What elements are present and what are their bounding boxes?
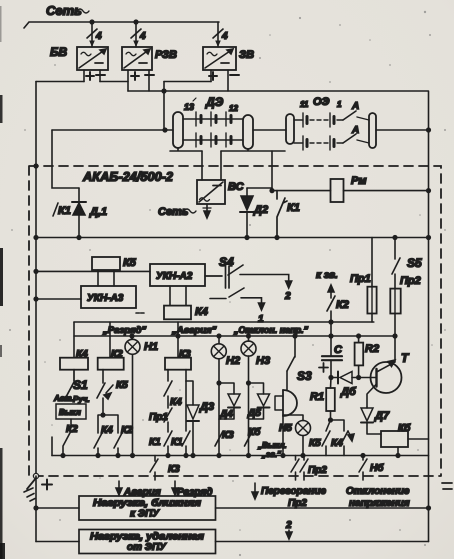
svg-text:„Вынл.: „Вынл. [257,441,287,450]
svg-text:Н1: Н1 [144,341,158,353]
scan edge artifacts [0,6,5,559]
svg-text:К1: К1 [287,202,300,214]
svg-text:12: 12 [229,104,238,113]
label 4 wires slash rectifier3 [213,29,228,42]
label S3 [297,369,312,383]
block УКН-А3 [81,286,136,308]
svg-text:Сеть: Сеть [158,206,188,218]
node bus dots [61,454,400,458]
transistor Т [367,336,402,407]
wire УКН feed upper [36,270,150,272]
node bus x277 [275,236,279,240]
label plus С [319,363,328,372]
contact Нб output [359,456,367,481]
wire bottom negative bus [52,455,429,457]
node УКН feed lower [34,297,38,301]
lamp Н5 [283,415,311,456]
wire К5 split to К4 К2 contacts [98,415,118,433]
label А row2 [351,125,359,136]
wire Рм line left [272,190,331,192]
relay Кб [381,431,429,456]
svg-text:Пр2: Пр2 [308,465,327,476]
switch S4 pole2 [210,288,265,310]
node УКН feed upper [34,270,38,274]
node bus x247 [245,236,249,240]
label Разряд [102,325,146,336]
label Нб output [370,462,384,474]
net label Сеть~ [46,3,89,18]
contact К4 right [331,420,355,456]
label Д5 [247,408,261,419]
wire rectifier2 minus stub [148,70,150,91]
svg-text:БВ: БВ [50,45,67,59]
contact К5 right [322,420,331,456]
svg-text:2: 2 [284,291,291,302]
dashed enclosure АКАБ-24/500-2 [29,166,441,476]
svg-text:К3: К3 [168,464,180,475]
label РЗВ [155,49,177,61]
label ВС [228,181,245,193]
label К1 left [149,437,161,448]
svg-text:„Отклон. напр.”: „Отклон. напр.” [233,325,309,335]
svg-text:К2: К2 [336,299,349,311]
label К4 contact [101,425,113,436]
label Д1 [89,206,107,218]
label Авария [171,325,217,336]
label К4 [195,306,208,318]
wire ОЭ to right bus [376,129,429,131]
svg-text:А: А [351,125,359,136]
label Н1 [144,341,158,353]
label К1 right [171,437,183,448]
arrow Авария [116,481,122,495]
label Н3 [256,355,270,367]
label К4 aux [170,397,182,408]
contact Пр2 output pair [291,456,308,481]
label 2 [284,291,291,302]
contact К4 aux [164,381,172,408]
label Авт Руч [53,394,90,404]
label АКАБ-24/500-2 [82,169,174,184]
bell звонок [275,390,297,456]
svg-text:ДЭ: ДЭ [205,95,224,109]
battery ОЭ left electrode pill [286,114,294,144]
battery ОЭ row2 with switch А [294,134,369,150]
wire branch x52 down [52,130,79,188]
node R2 top [357,334,361,338]
svg-text:„Разряд”: „Разряд” [102,325,146,336]
label 11 [300,100,309,109]
switch S4 pole1 [205,265,292,288]
contact К5 with arrow [97,370,113,415]
battery ОЭ right electrode pill [369,113,376,148]
node lamp Н1 top [130,334,134,338]
node battery feeder [163,128,167,132]
wire main dc bus [36,237,429,239]
battery ДЭ row2 cells [183,133,243,147]
wire ДЭ to ОЭ link [253,129,286,131]
wire К3 relay legs [168,370,186,381]
svg-text:К5: К5 [309,438,321,449]
label 13 [184,98,196,112]
wire C branch [330,336,332,356]
wire rectifier1 plus stub [83,70,85,82]
switch S5 contact [392,238,400,289]
battery ДЭ left electrode pill [173,112,183,148]
node Рм line [270,189,274,193]
label К1 [53,203,71,217]
node S5 bus [393,236,397,240]
svg-text:К4: К4 [170,397,182,408]
svg-text:Д5: Д5 [247,408,261,419]
wire rect3 plus link [164,81,211,83]
svg-text:S1: S1 [73,378,88,392]
label К2 relay [111,349,123,360]
svg-text:К1: К1 [171,437,183,448]
svg-text:Пр1: Пр1 [350,273,371,285]
label Пр2 [400,275,421,287]
wire Рм line right [344,190,429,192]
svg-text:к зв.: к зв. [316,270,338,281]
wire ВС output arrow [203,204,211,218]
svg-text:К4: К4 [331,438,343,449]
svg-text:Н5: Н5 [279,423,292,434]
wire rectifier1 minus stub [99,70,101,82]
label Перегорание Пр2 [261,486,326,509]
label Д7 [374,410,390,422]
node tap2 [134,20,138,24]
relay К4 signal box [60,358,88,370]
resistor R2 [355,336,364,378]
svg-text:11: 11 [300,100,309,109]
svg-text:Н2: Н2 [226,355,240,367]
switch S1 selector [66,370,74,397]
svg-text:R2: R2 [365,343,379,355]
wire bottom bus left hook [51,437,53,456]
label К5 right [309,438,321,449]
svg-text:Д7: Д7 [374,410,390,422]
svg-text:Д3: Д3 [199,401,214,413]
mark equals bottom right [442,483,452,489]
svg-text:К5: К5 [123,257,137,269]
label S1 [73,378,88,392]
node collector top [393,334,397,338]
wire load1 return [216,507,429,509]
svg-text:1: 1 [337,100,342,109]
wire battery left feeder [52,129,173,131]
rectifier БВ (U1) [77,47,108,70]
label К4 relay [76,349,88,360]
wire drop to rectifier 3 [217,22,219,47]
label ЗВ [239,49,254,61]
block load far Нагрузка удаленная [79,530,216,554]
switch S4 label [219,255,234,269]
label Сеть~ output [158,206,196,218]
wire ВС input taps [202,151,221,180]
wire ДЭ bottom bus segments [170,148,285,151]
block УКН-А2 [150,264,205,286]
block load near Нагрузка ближняя [79,496,216,520]
wire top mains bus [24,22,219,28]
rectifier ЗВ (U3) [203,47,236,70]
wire battery feed drop [163,82,165,131]
battery ДЭ row1 cells [183,112,243,126]
svg-text:Нагрузка, ближняя: Нагрузка, ближняя [93,497,201,509]
wire drop arrowheads [89,41,221,48]
fuse Пр2 [390,289,400,336]
label К5 [123,257,137,269]
svg-text:К2: К2 [111,349,123,360]
label Кб contact [248,426,261,438]
svg-text:4: 4 [95,31,102,42]
label 1 [337,100,342,109]
wire to load2 [36,541,79,543]
label К4 right [331,438,343,449]
label К2 contact2 [121,425,133,436]
wire ОЭ mid tap down [271,151,273,191]
node R1 bottom [329,418,333,422]
wire rectifier2 plus stub [127,70,129,82]
relay Рм [331,179,344,202]
node right bus ОЭ [427,128,431,132]
wire drop to rectifier 2 [135,22,137,47]
svg-text:А: А [351,101,359,112]
label ДЭ [205,95,224,109]
label А row1 [351,101,359,112]
label R2 [365,343,379,355]
rectifier РЗВ (U2) [122,47,152,70]
label К3 relay [179,349,191,360]
contact К2 S1 [63,419,71,456]
svg-text:К2: К2 [66,424,78,435]
wire К3 relay drop [177,322,179,358]
label БВ [50,45,67,59]
wire right main bus [428,91,430,542]
svg-text:к ЭПУ: к ЭПУ [130,509,160,520]
label Д4 [219,409,233,420]
svg-text:Авт.: Авт. [53,394,74,403]
wire К2 relay drop [109,322,111,358]
svg-text:Дб: Дб [340,386,357,398]
label plus minus rectifier3 [209,72,239,80]
mark dash below УКН-А3 [136,312,144,314]
contact Пр1 aux [164,408,172,432]
label plus ground [42,480,52,490]
svg-text:„зв.”: „зв.” [261,450,281,459]
label 12 [229,104,238,113]
node load1 tap [34,506,38,510]
node К3 top [176,334,180,338]
node C line [329,334,333,338]
wire УКН feed lower [36,298,81,300]
wire left main bus positive [35,82,37,477]
label Разряд [177,487,213,498]
contact К3 under Н2 [215,431,223,446]
node R2 base [357,376,361,380]
svg-text:4: 4 [221,31,228,42]
battery ОЭ row1 with switch А [294,111,369,127]
label К3 output [168,464,180,475]
label Дб [340,386,357,398]
wire link rect1 minus to rect2 plus [100,82,128,92]
svg-text:S3: S3 [297,369,312,383]
label Рм [351,175,366,187]
inverter ВС [197,180,225,204]
relay К3 signal box [165,358,191,370]
svg-text:13: 13 [184,102,194,112]
svg-text:УКН-А3: УКН-А3 [87,293,124,304]
fuse Пр1 [367,238,376,323]
svg-text:1: 1 [258,314,264,325]
svg-text:К2: К2 [121,425,133,436]
wire УКН-А2 legs [170,286,186,306]
node bus x36 [34,236,38,240]
wire к зв arrow up with contact К2 [327,285,335,336]
node tap1 [90,20,94,24]
svg-text:К4: К4 [101,425,113,436]
contact К1 left [164,431,172,456]
diode Д5 loop [249,383,270,419]
relay К5 box [92,257,120,270]
svg-text:Д,1: Д,1 [89,206,107,218]
svg-text:Отклонение: Отклонение [346,486,410,497]
label 4 wires slash rectifier2 [131,29,146,42]
label Н2 [226,355,240,367]
label Пр1 [350,273,371,285]
contact К4 column [94,433,102,456]
arrow Перегорание [252,483,258,499]
wire signal section top line [74,321,374,323]
svg-text:Нб: Нб [370,462,384,474]
svg-text:Перегорание: Перегорание [261,486,326,497]
svg-text:АКАБ-24/500-2: АКАБ-24/500-2 [82,169,174,184]
diode Д1 with contact К1 [72,188,86,238]
node minus bus crossing [162,89,166,93]
svg-text:К5: К5 [116,380,128,391]
wire load feeder [35,476,37,542]
diode Д4 loop [219,383,240,419]
svg-text:Выкл: Выкл [59,408,81,417]
svg-text:К4: К4 [195,306,208,318]
wire drop to rectifier 1 [91,22,93,47]
label Вынл зв [257,441,287,459]
svg-text:Кб: Кб [248,426,261,438]
node border crossing circle [33,473,38,478]
resistor R1 [326,378,335,421]
relay К4 box [164,306,191,320]
label R1 [310,391,324,403]
ground symbol [24,478,36,501]
wire Д2 link [247,187,272,189]
svg-text:Руч.: Руч. [73,395,90,404]
svg-text:С: С [334,344,343,356]
lamp Н3 [241,336,256,456]
contact Кб under Н3 [245,431,253,446]
label 4 wires slash rectifier1 [87,29,102,42]
svg-text:УКН-А2: УКН-А2 [156,271,193,282]
relay К2 signal box [98,358,124,370]
label к зв. [316,270,338,281]
wire rectifier3 minus stub [227,70,229,91]
svg-text:РЗВ: РЗВ [155,49,177,61]
wire К5 legs [98,270,114,286]
label К2 S1 [66,424,78,435]
node C branch top [329,320,333,324]
node Дб С [329,376,333,380]
label Пр1 aux [149,412,168,423]
label К2 [336,299,349,311]
label К3 contact [222,430,234,441]
label Авария [123,487,161,498]
svg-text:Пр2: Пр2 [400,275,421,287]
wire plus bus left [36,81,84,83]
svg-text:К3: К3 [179,349,191,360]
label К1 contact [287,202,300,214]
wire minus bus long [128,90,428,92]
svg-text:Пр1: Пр1 [149,412,168,423]
contact К2 column [114,433,122,456]
wire К4 relay drop [73,322,75,358]
svg-text:2: 2 [285,520,292,531]
label plus minus rectifier2 [131,72,154,80]
capacitor С [322,356,342,377]
lamp Н1 [125,336,140,456]
node Д4 branch [217,381,221,385]
wire to load1 [36,507,79,509]
svg-text:К3: К3 [222,430,234,441]
node Д5 branch [247,381,251,385]
label 2 with arrow [285,520,292,539]
svg-text:S5: S5 [407,256,422,270]
node bus x79 [77,236,81,240]
node bus x428 [427,236,431,240]
contact К1 right [182,381,190,456]
svg-text:ЗВ: ЗВ [239,49,254,61]
label Пр2 output [308,465,327,476]
svg-text:S4: S4 [219,255,234,269]
svg-text:К4: К4 [76,349,88,360]
switch S3 [287,336,295,390]
arrow Разряд [172,481,178,495]
svg-text:ОЭ: ОЭ [313,96,330,108]
label К5 contact [116,380,128,391]
label 1 [258,314,264,325]
svg-text:К1: К1 [58,205,71,217]
label Т [401,351,410,365]
contact К3 output [150,456,158,481]
diode Д2 [240,188,254,238]
label Д3 [199,401,214,413]
contact К1 charge [277,191,287,238]
wire signal section lower line [74,335,395,337]
wire load2 return [216,541,429,543]
node load1 return [427,506,431,510]
label S5 [407,256,422,270]
svg-text:Кб: Кб [398,422,411,434]
label Д2 [253,204,268,216]
svg-text:К1: К1 [149,437,161,448]
svg-text:ВС: ВС [228,181,245,193]
svg-text:Д2: Д2 [253,204,268,216]
diode Дб [331,372,376,384]
svg-text:от ЭПУ: от ЭПУ [127,542,167,553]
svg-text:Нагрузка, удаленная: Нагрузка, удаленная [90,532,204,543]
label Отклон напр [233,325,309,335]
label Н5 [279,423,292,434]
node Рм right bus [427,189,431,193]
svg-text:Н3: Н3 [256,355,270,367]
battery ДЭ right electrode pill [243,115,253,149]
